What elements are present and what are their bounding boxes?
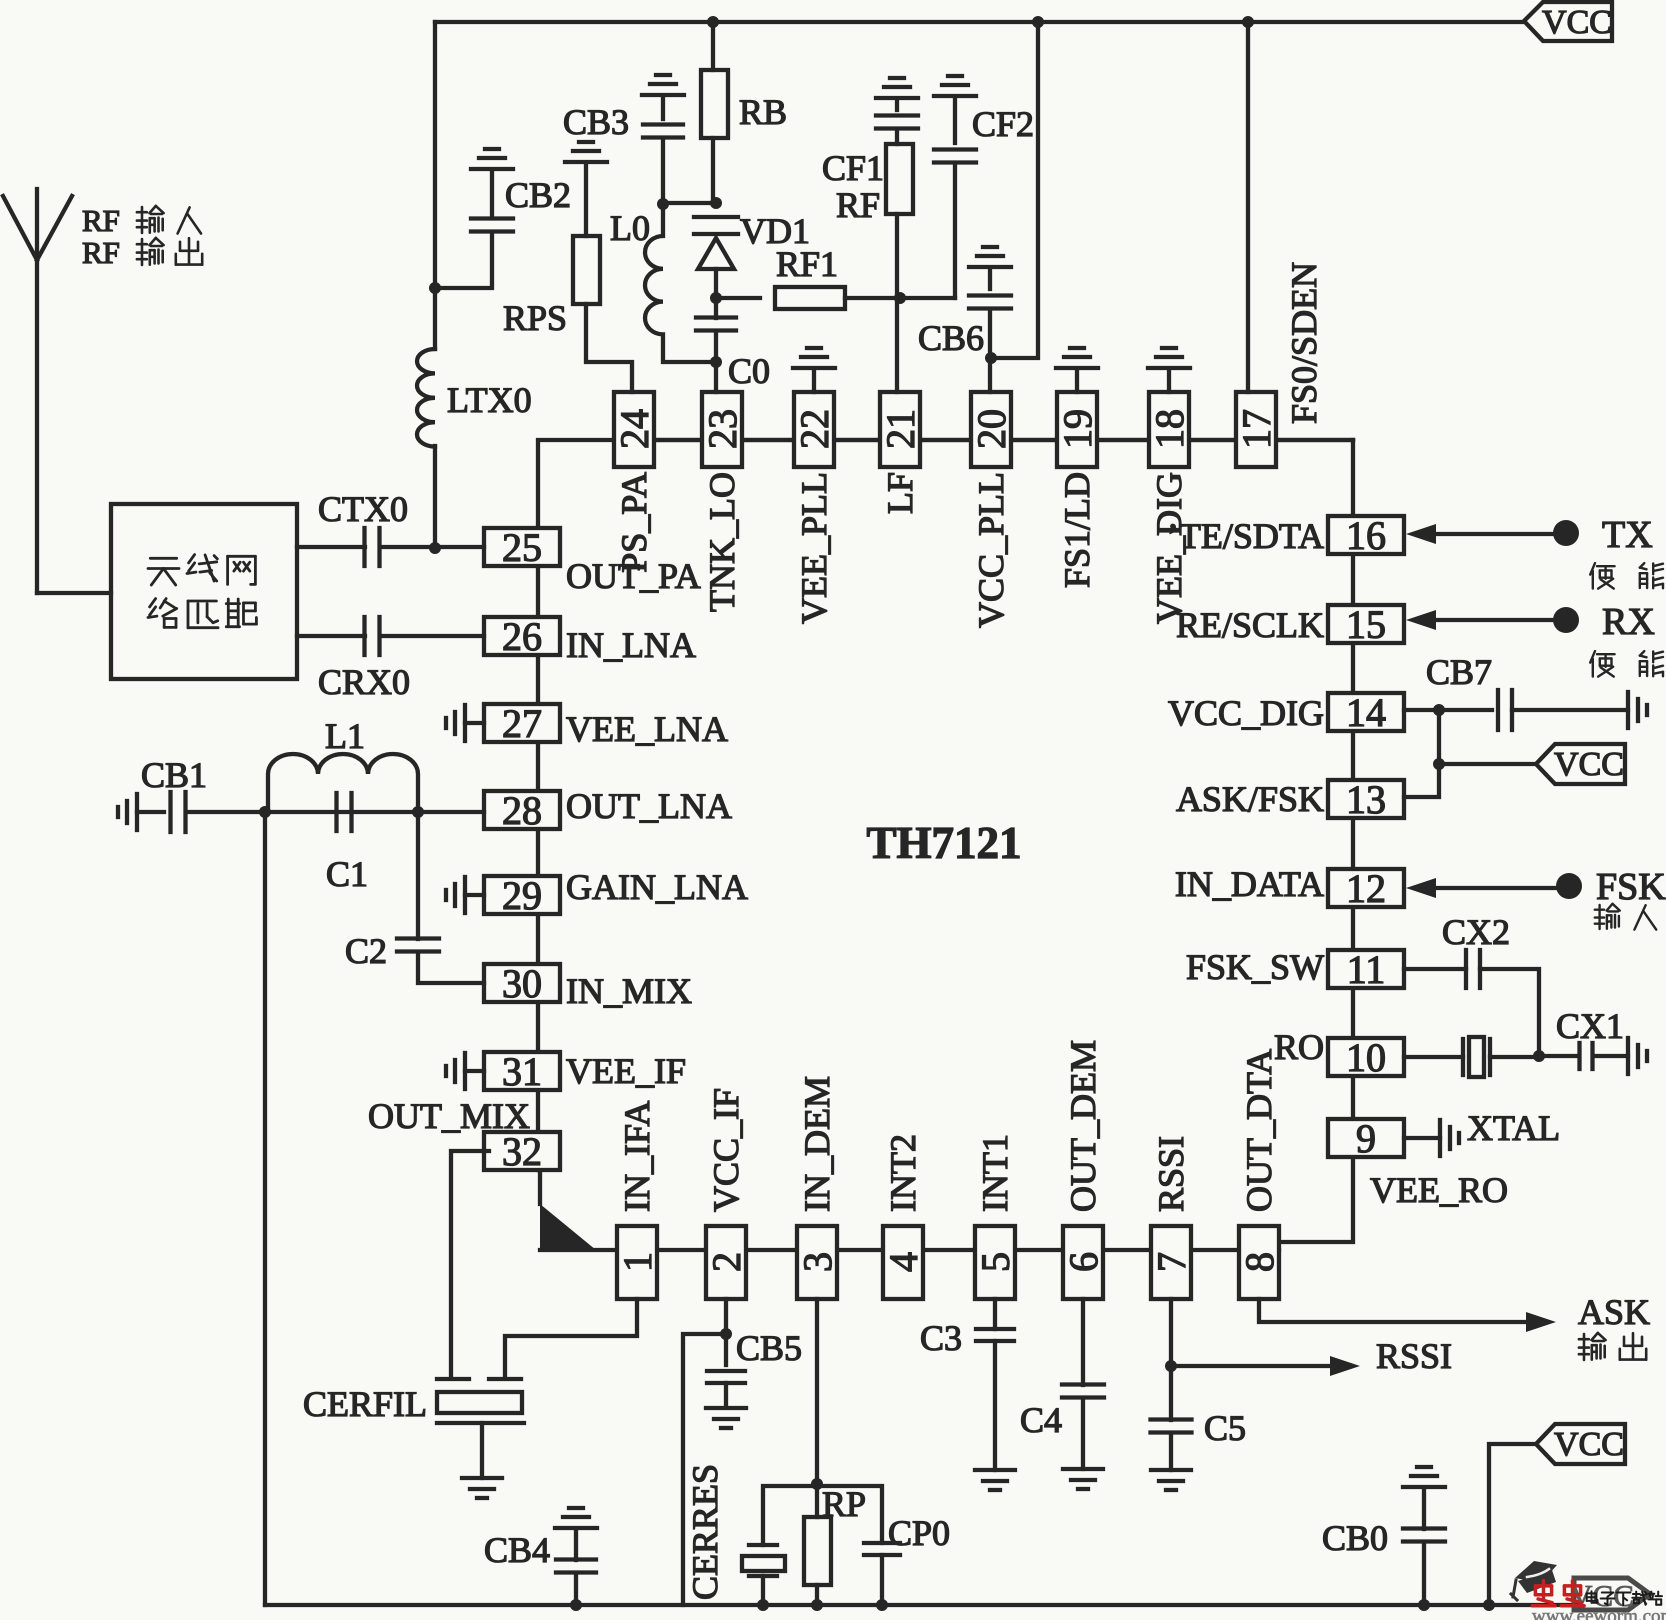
inductor L0 [645,204,716,362]
svg-text:VEE_RO: VEE_RO [1370,1170,1508,1210]
svg-text:INT1: INT1 [975,1134,1015,1212]
svg-text:IN_LNA: IN_LNA [566,625,696,665]
svg-text:16: 16 [1346,513,1386,558]
wire TX enable arrow [1406,524,1553,544]
wire FS0/SDEN riser [1246,22,1250,392]
label FSK input [1595,904,1656,930]
svg-text:CF1: CF1 [822,148,884,188]
svg-text:L1: L1 [325,716,365,756]
svg-text:INT2: INT2 [883,1134,923,1212]
svg-text:RB: RB [739,92,787,132]
IC pin 20 box [969,392,1014,467]
IC pin 6 box [1061,1226,1106,1299]
IC pin 10 box [1328,1035,1404,1080]
capacitor C3 [976,1299,1014,1470]
power flag VCC mid [1439,744,1625,784]
svg-text:XTAL: XTAL [1467,1108,1560,1148]
svg-text:7: 7 [1149,1252,1194,1272]
svg-text:24: 24 [612,409,657,449]
junction CP0 / rail [876,1599,888,1611]
svg-text:13: 13 [1346,777,1386,822]
junction RSSI tap [1165,1360,1177,1372]
svg-text:OUT_DTA: OUT_DTA [1239,1049,1279,1212]
svg-text:IN_IFA: IN_IFA [617,1101,657,1212]
junction RP / rail [811,1599,823,1611]
svg-text:18: 18 [1147,409,1192,449]
junction RF / RF1 / CF2 [894,292,906,304]
svg-text:GAIN_LNA: GAIN_LNA [566,867,748,907]
capacitor CB5 [707,1334,745,1406]
wire pin2 to CB5 node [724,1299,728,1334]
svg-text:31: 31 [502,1049,542,1094]
svg-text:3: 3 [795,1252,840,1272]
svg-text:10: 10 [1346,1035,1386,1080]
IC pin 5 box [973,1226,1018,1299]
capacitor CTX0 [297,528,484,566]
junction CB2 [429,282,441,294]
svg-text:23: 23 [700,409,745,449]
ceramic filter CERFIL [437,1379,524,1478]
wire bottom edge of IC [619,1248,1279,1252]
svg-text:28: 28 [502,788,542,833]
svg-text:RE/SCLK: RE/SCLK [1176,605,1324,645]
svg-text:21: 21 [878,409,923,449]
wire OUT_LNA node [265,810,484,814]
svg-text:CB1: CB1 [141,755,207,795]
capacitor CP0 [817,1486,900,1605]
IC pin 3 box [795,1226,840,1299]
svg-text:VCC: VCC [1554,1426,1624,1463]
IC pin 15 box [1328,602,1404,647]
svg-text:6: 6 [1061,1252,1106,1272]
svg-text:C3: C3 [920,1318,962,1358]
capacitor CB6 with ground [969,247,1011,392]
wire CB3 to RB node [663,201,716,205]
svg-text:RF: RF [82,235,120,270]
svg-text:TH7121: TH7121 [866,818,1021,868]
svg-text:RPS: RPS [503,298,567,338]
resistor RPS [573,164,632,392]
svg-text:L0: L0 [610,208,650,248]
svg-text:RP: RP [822,1484,866,1524]
svg-text:RF1: RF1 [776,244,838,284]
svg-text:29: 29 [502,873,542,918]
svg-text:20: 20 [969,409,1014,449]
svg-text:OUT_PA: OUT_PA [566,556,701,596]
svg-text:CX1: CX1 [1556,1006,1624,1046]
ground above IC pin [793,348,835,392]
label RX enable [1590,651,1663,677]
capacitor CB3 [642,75,684,204]
junction CB6 bottom [985,352,997,364]
node FSK [1556,873,1582,899]
wire CB5 node to rail [683,1334,726,1605]
ground below CB5 [706,1408,746,1428]
wire CB6 riser from rail [991,22,1038,358]
junction CB7 [1433,704,1445,716]
junction L0 top [657,198,669,210]
ground left of IC pin [446,877,484,913]
svg-text:CP0: CP0 [888,1513,950,1553]
IC pin 11 box [1328,947,1404,992]
svg-text:FSK: FSK [1596,866,1666,908]
svg-text:CB5: CB5 [736,1328,802,1368]
wire XTAL ground [1404,1136,1440,1140]
ground above IC pin [1148,348,1190,392]
capacitor CX2 [1404,950,1539,1056]
inductor L1 [268,754,418,812]
IC pin 21 box [878,392,923,467]
capacitor CB0 [1403,1467,1445,1605]
capacitor C2 [397,812,484,983]
IC pin 13 box [1328,777,1404,822]
IC pin 31 box [484,1049,560,1094]
ground right of pin 9 XTAL [1440,1120,1459,1156]
svg-text:RX: RX [1602,601,1655,643]
IC pin 23 box [700,392,745,467]
IC pin 22 box [792,392,837,467]
svg-text:C2: C2 [345,931,387,971]
svg-text:FS1/LD: FS1/LD [1057,472,1097,588]
capacitor CB2 [435,173,513,288]
svg-text:CX2: CX2 [1442,912,1510,952]
svg-text:CTX0: CTX0 [318,489,408,529]
ground above CB2 [471,149,513,169]
IC pin 18 box [1147,392,1192,467]
svg-text:OUT_MIX: OUT_MIX [368,1096,530,1136]
junction VD1 top [710,197,722,209]
ground below CERFIL [462,1478,502,1498]
IC pin 25 box [484,525,560,570]
svg-text:CF2: CF2 [972,104,1034,144]
capacitor C0 [696,298,736,392]
junction L0 bottom / C0 [710,356,722,368]
svg-text:VCC: VCC [1542,4,1612,41]
svg-text:VEE_IF: VEE_IF [566,1051,686,1091]
junction CB5 [720,1328,732,1340]
IC pin 8 box [1237,1226,1282,1299]
block antenna matching network [111,504,297,679]
antenna [3,189,111,593]
inductor LTX0 [417,349,435,447]
wire bottom ground rail [265,1603,1580,1607]
capacitor CF2 with ground [900,76,976,298]
svg-text:CB0: CB0 [1322,1518,1388,1558]
svg-text:RF: RF [82,203,120,238]
wire pin3 down [815,1299,819,1484]
ground below C3 [975,1470,1015,1490]
capacitor CF1 with ground [876,78,918,144]
junction VCC drop / rail [1483,1599,1495,1611]
power flag VCC top right [1524,2,1612,41]
IC pin 4 box [881,1226,926,1299]
svg-text:’TE/SDTA: ’TE/SDTA [1167,516,1324,556]
IC pin 17 box [1234,392,1279,467]
svg-text:17: 17 [1234,409,1279,449]
svg-text:2: 2 [704,1252,749,1272]
wire VCC top rail [435,22,1524,288]
svg-text:26: 26 [502,614,542,659]
IC pin 28 box [484,788,560,833]
junction CB6 branch / rail [1032,16,1044,28]
ceramic resonator CERRES [742,1486,817,1605]
svg-text:FSK_SW: FSK_SW [1186,947,1324,987]
wire right edge of IC [1351,516,1355,1157]
IC pin 2 box [704,1226,749,1299]
capacitor C1 [337,793,352,831]
junction CB4 / rail [570,1599,582,1611]
junction CX1 / CX2 / crystal [1533,1050,1545,1062]
junction LTX0 / pin25 wire [429,542,441,554]
svg-text:19: 19 [1055,409,1100,449]
IC pin 32 box [484,1129,560,1174]
IC pin 12 box [1328,866,1404,911]
capacitor CX1 [1539,1043,1628,1069]
svg-text:30: 30 [502,961,542,1006]
svg-text:LTX0: LTX0 [447,380,532,420]
wire RSSI output arrow [1171,1356,1360,1376]
svg-text:C4: C4 [1020,1400,1062,1440]
ground right of CB7 [1628,692,1647,728]
svg-text:9: 9 [1356,1116,1376,1161]
wire VCC_DIG / CB7 [1404,710,1492,797]
IC pin 27 box [484,701,560,746]
wire ASK output [1259,1299,1556,1332]
svg-text:CB4: CB4 [484,1530,550,1570]
capacitor C5 [1151,1299,1192,1470]
junction CB0 / rail [1418,1599,1430,1611]
svg-text:IN_DATA: IN_DATA [1175,864,1324,904]
crystal X1 [1404,1037,1539,1077]
watermark red text [1532,1581,1584,1606]
ground left of IC pin [446,1053,484,1089]
ground above IC pin [1056,348,1098,392]
svg-text:VCC_DIG: VCC_DIG [1168,693,1324,733]
svg-text:CERRES: CERRES [685,1464,725,1600]
wire RX enable arrow [1406,610,1553,630]
svg-text:ASK/FSK: ASK/FSK [1176,779,1324,819]
label ASK chinese [1579,1333,1646,1360]
svg-text:RO: RO [1274,1027,1324,1067]
power flag VCC bottom [1489,1424,1625,1605]
svg-text:LF: LF [880,472,920,514]
svg-text:IN_MIX: IN_MIX [566,971,692,1011]
IC pin 19 box [1055,392,1100,467]
wire FSK input arrow [1406,878,1556,898]
svg-text:RF: RF [836,185,880,225]
svg-text:TNK_LO: TNK_LO [702,472,742,612]
junction VCC tap [1433,758,1445,770]
IC pin 7 box [1149,1226,1194,1299]
junction RB / rail [707,16,719,28]
capacitor CB1 [137,792,265,832]
label RF output [82,235,202,270]
svg-text:15: 15 [1346,602,1386,647]
svg-text:CB7: CB7 [1426,652,1492,692]
svg-text:CB6: CB6 [918,318,984,358]
IC pin 14 box [1328,690,1404,735]
svg-text:CERFIL: CERFIL [303,1384,427,1424]
svg-text:8: 8 [1237,1252,1282,1272]
svg-text:TX: TX [1602,514,1653,556]
svg-text:www.eeworm.com: www.eeworm.com [1532,1606,1666,1620]
ground above RPS [565,142,607,162]
svg-text:CB3: CB3 [563,102,629,142]
svg-text:VCC_PLL: VCC_PLL [971,472,1011,628]
svg-text:IN_DEM: IN_DEM [797,1076,837,1212]
IC pin 16 box [1328,513,1404,558]
svg-text:27: 27 [502,701,542,746]
watermark graduation cap [1511,1561,1557,1600]
IC pin 9 box [1328,1116,1404,1161]
node TX [1553,520,1579,546]
svg-text:12: 12 [1346,866,1386,911]
IC pin 30 box [484,961,560,1006]
svg-text:25: 25 [502,525,542,570]
IC U1 TH7121 ring wire [538,440,1353,1250]
label RF input [82,203,201,238]
capacitor CB4 [555,1508,597,1605]
svg-text:VCC_IF: VCC_IF [706,1088,746,1212]
svg-text:5: 5 [973,1252,1018,1272]
svg-text:C5: C5 [1204,1408,1246,1448]
ground below C5 [1151,1470,1191,1490]
svg-text:RSSI: RSSI [1376,1336,1452,1376]
wire OUT_MIX to CERFIL [451,1151,489,1377]
node RX [1553,607,1579,633]
svg-text:CRX0: CRX0 [318,662,410,702]
junction RP node [811,1478,823,1490]
junction L1 right / C2 [412,806,424,818]
wire CB1 node to bottom rail [263,812,267,1605]
ground left of IC pin [446,705,484,741]
IC pin 1 box [615,1226,660,1299]
svg-text:VEE_LNA: VEE_LNA [566,709,728,749]
power flag VCC rail end [1570,1578,1650,1613]
ground right of CX1 [1628,1038,1647,1074]
wire LTX0 column [433,288,437,548]
watermark dark site name [1587,1591,1662,1605]
svg-text:RSSI: RSSI [1151,1136,1191,1212]
capacitor C4 [1062,1299,1104,1469]
wire left edge of IC [536,528,540,1170]
svg-text:ASK: ASK [1578,1292,1650,1332]
svg-text:14: 14 [1346,690,1386,735]
svg-text:VCC: VCC [1554,746,1624,783]
junction FS0 branch / rail [1242,16,1254,28]
IC U1 pin 1 index triangle [540,1204,596,1250]
capacitor CRX0 [297,617,484,655]
resistor RB [701,22,728,203]
IC pin 26 box [484,614,560,659]
wire top edge of IC [615,438,1353,442]
svg-text:22: 22 [792,409,837,449]
svg-text:11: 11 [1347,947,1386,992]
ground below C4 [1063,1469,1103,1489]
junction CERRES / rail [757,1599,769,1611]
ground left of CB1 [118,794,137,830]
svg-text:C0: C0 [728,351,770,391]
svg-text:1: 1 [615,1252,660,1272]
svg-text:VEE_PLL: VEE_PLL [794,472,834,624]
resistor RF1 [716,287,900,309]
svg-text:C1: C1 [326,854,368,894]
svg-text:FS0/SDEN: FS0/SDEN [1284,262,1324,424]
junction VD1 / RF1 [710,292,722,304]
IC pin 29 box [484,873,560,918]
svg-text:OUT_LNA: OUT_LNA [566,786,732,826]
junction CB1 / L1 left [259,806,271,818]
resistor RP [804,1484,831,1605]
svg-text:CB2: CB2 [505,175,571,215]
label TX enable [1590,563,1663,589]
wire pin1 to CERFIL [505,1299,637,1377]
IC pin 24 box [612,392,657,467]
svg-text:4: 4 [881,1252,926,1272]
resistor RF [886,144,913,392]
svg-text:OUT_DEM: OUT_DEM [1063,1040,1103,1212]
capacitor CB7 [1498,690,1628,730]
varactor diode VD1 [694,217,738,298]
